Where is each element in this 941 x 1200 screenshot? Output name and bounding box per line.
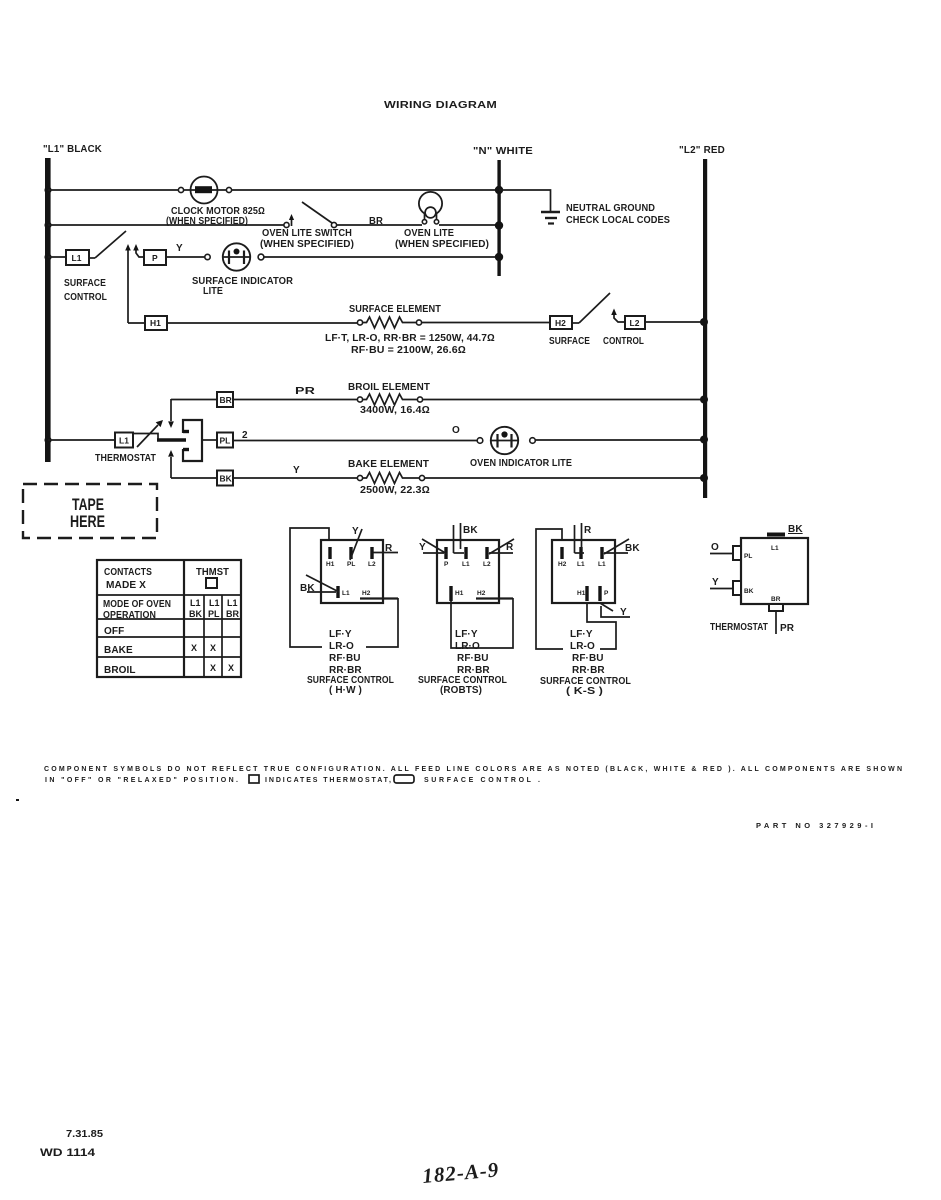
terminal box BK (bake) bbox=[217, 471, 233, 486]
svg-text:LR·O: LR·O bbox=[455, 641, 480, 652]
svg-text:MADE X: MADE X bbox=[106, 580, 146, 591]
label O wire color bbox=[452, 425, 460, 436]
svg-text:PL: PL bbox=[744, 553, 752, 560]
label SURFACE ELEMENT bbox=[349, 304, 441, 315]
label BAKE ELEMENT bbox=[348, 459, 429, 470]
svg-text:H1: H1 bbox=[326, 561, 335, 568]
wire clock motor row left segment bbox=[48, 189, 178, 191]
SC3 element color list bbox=[570, 629, 605, 676]
svg-text:( H·W ): ( H·W ) bbox=[329, 685, 362, 696]
junction N bus / oven lite row bbox=[495, 221, 503, 229]
wire BK box to bake element bbox=[233, 477, 357, 479]
resistor R3 bake element 2500W bbox=[357, 473, 424, 484]
oven selector block bbox=[183, 420, 202, 461]
label date 7.31.85 bbox=[66, 1128, 103, 1140]
svg-text:H1: H1 bbox=[577, 590, 586, 597]
wire selector block to PL box bbox=[202, 439, 217, 441]
svg-text:R: R bbox=[584, 525, 592, 536]
svg-text:THMST: THMST bbox=[196, 567, 229, 578]
svg-text:LR-O: LR-O bbox=[570, 641, 595, 652]
svg-text:L1: L1 bbox=[72, 253, 82, 263]
node L1 bus label "L1" BLACK bbox=[43, 143, 102, 155]
SC1 BK lead with slash to L1 bbox=[300, 575, 339, 594]
wire clock motor row right segment to N bbox=[231, 189, 499, 191]
svg-text:RF·BU: RF·BU bbox=[457, 653, 489, 664]
wire oven lite row right segment to N bbox=[439, 224, 499, 226]
label BROIL ELEMENT bbox=[348, 382, 430, 393]
svg-text:WD 1114: WD 1114 bbox=[40, 1147, 96, 1159]
surface control unit SC1 (H-W) body bbox=[321, 540, 383, 603]
svg-text:SURFACE CONTROL .: SURFACE CONTROL . bbox=[424, 777, 540, 784]
label PART NO 327929-1 bbox=[756, 821, 873, 830]
node L2 bus label "L2" RED bbox=[679, 144, 725, 156]
svg-text:MODE OF OVEN: MODE OF OVEN bbox=[103, 599, 171, 610]
wire bake row left elbow bbox=[171, 477, 217, 479]
lamp DS2 surface indicator lite bbox=[205, 243, 264, 270]
SC1 terminals H1 PL L2 bbox=[326, 547, 376, 568]
svg-text:THERMOSTAT: THERMOSTAT bbox=[710, 622, 768, 633]
label OVEN LITE SWITCH (WHEN SPECIFIED) bbox=[260, 228, 354, 250]
terminal box BR (broil) bbox=[217, 392, 233, 407]
svg-text:H2: H2 bbox=[477, 590, 486, 597]
svg-text:L1: L1 bbox=[598, 561, 606, 568]
wire broil element to L2 bus bbox=[423, 399, 706, 401]
wire H1 row left elbow bbox=[128, 322, 145, 324]
svg-text:LF·T, LR-O, RR·BR = 1250W, 44.: LF·T, LR-O, RR·BR = 1250W, 44.7Ω bbox=[325, 333, 495, 344]
junction L2 bus / bake row bbox=[700, 474, 708, 482]
svg-text:BR: BR bbox=[226, 609, 239, 619]
svg-text:PL: PL bbox=[208, 609, 220, 619]
SC2 caption bbox=[418, 675, 507, 696]
title bbox=[384, 99, 497, 111]
wire broil row left elbow bbox=[171, 399, 217, 401]
switch blade H2 surface control bbox=[572, 293, 610, 323]
junction L1 bus / surface control row bbox=[44, 253, 51, 260]
svg-text:OFF: OFF bbox=[104, 626, 124, 637]
svg-text:LITE: LITE bbox=[203, 286, 223, 297]
SC2 R lead with slash bbox=[489, 539, 514, 554]
switch blade surface control L1 bbox=[89, 231, 126, 258]
wire L1 bus to L1 surface control box bbox=[48, 256, 66, 258]
svg-text:H2: H2 bbox=[362, 590, 371, 597]
svg-text:OVEN LITE: OVEN LITE bbox=[404, 228, 454, 239]
svg-text:OVEN LITE SWITCH: OVEN LITE SWITCH bbox=[262, 228, 352, 239]
svg-text:"N" WHITE: "N" WHITE bbox=[473, 145, 533, 157]
label 2500W 22.3 ohm bbox=[360, 485, 430, 496]
label THERMOSTAT PR bbox=[710, 622, 795, 634]
svg-text:2: 2 bbox=[242, 430, 248, 441]
svg-text:P: P bbox=[604, 590, 609, 597]
svg-text:RF·BU: RF·BU bbox=[329, 653, 361, 664]
label PR wire color bbox=[295, 386, 316, 397]
svg-text:PL: PL bbox=[220, 436, 231, 446]
wire H1 riser with contact arrow bbox=[125, 244, 131, 323]
wire P box to surface indicator lite bbox=[166, 256, 205, 258]
resistor R1 surface element bbox=[357, 317, 421, 328]
wire surface element to H2 bbox=[422, 322, 551, 324]
wire oven lite switch row left segment bbox=[48, 224, 284, 226]
label OVEN INDICATOR LITE bbox=[470, 458, 572, 469]
svg-text:L2: L2 bbox=[483, 561, 491, 568]
terminal box H2 bbox=[550, 316, 572, 329]
junction L2 bus / pilot row bbox=[700, 436, 708, 444]
tape here box bbox=[23, 484, 157, 538]
wire PL box to oven indicator lite bbox=[233, 440, 477, 442]
SC3 terminals H2 L1 L1 bbox=[558, 547, 606, 568]
terminal box H1 bbox=[145, 316, 167, 330]
SC3 lower terminals H1 P bbox=[577, 586, 609, 601]
wire neutral ground stub bbox=[499, 190, 551, 211]
label OVEN LITE (WHEN SPECIFIED) bbox=[395, 228, 489, 250]
svg-text:Y: Y bbox=[419, 542, 426, 553]
svg-text:LF·Y: LF·Y bbox=[570, 629, 593, 640]
svg-text:BK: BK bbox=[220, 474, 233, 484]
SC2 lower terminals H1 H2 bbox=[451, 586, 513, 601]
wire N neutral bus (white) bbox=[497, 160, 500, 276]
svg-text:L1: L1 bbox=[209, 598, 220, 608]
svg-text:Y: Y bbox=[712, 577, 719, 588]
label SURFACE CONTROL (left) bbox=[64, 278, 107, 303]
wire thermostat jog to selector block bbox=[133, 434, 186, 441]
svg-text:X: X bbox=[228, 663, 234, 673]
wire surface indicator row to N bbox=[264, 256, 499, 258]
switch S1 oven lite switch bbox=[284, 202, 337, 228]
thermostat detail box bbox=[741, 538, 808, 604]
label SURFACE INDICATOR LITE bbox=[192, 276, 294, 297]
svg-text:CHECK LOCAL CODES: CHECK LOCAL CODES bbox=[566, 215, 670, 226]
SC3 outer wire loop bbox=[536, 529, 616, 649]
thermostat PL terminal with O lead bbox=[710, 542, 752, 560]
svg-text:O: O bbox=[711, 542, 719, 553]
label terminal 2 bbox=[242, 430, 248, 441]
label Y wire color bbox=[176, 243, 183, 254]
label BR wire color bbox=[369, 216, 384, 227]
svg-text:Y: Y bbox=[293, 465, 300, 476]
SC2 outer wire loop bbox=[451, 598, 513, 648]
svg-text:P: P bbox=[444, 561, 449, 568]
SC1 element color list bbox=[329, 629, 362, 676]
SC3 BK lead with slash bbox=[604, 539, 640, 554]
svg-text:BK: BK bbox=[189, 609, 202, 619]
svg-text:SURFACE ELEMENT: SURFACE ELEMENT bbox=[349, 304, 441, 315]
svg-text:WIRING DIAGRAM: WIRING DIAGRAM bbox=[384, 99, 497, 111]
svg-text:IN "OFF" OR "RELAXED" POSITI: IN "OFF" OR "RELAXED" POSITION. bbox=[45, 777, 238, 784]
wire oven indicator lite to L2 bus bbox=[536, 439, 706, 441]
lamp DS1 oven lite bbox=[419, 192, 442, 224]
SC1 caption bbox=[307, 675, 394, 696]
label SURFACE CONTROL (right) bbox=[549, 336, 644, 347]
wire P box hook with contact arrow bbox=[133, 244, 144, 257]
wire bake contact riser with arrow bbox=[168, 450, 174, 478]
terminal box PL (pilot) bbox=[217, 433, 233, 448]
label Y wire color (bake) bbox=[293, 465, 300, 476]
junction L1 bus / thermostat row bbox=[44, 436, 51, 443]
svg-text:BAKE ELEMENT: BAKE ELEMENT bbox=[348, 459, 429, 470]
svg-text:BK: BK bbox=[463, 525, 478, 536]
svg-text:HERE: HERE bbox=[70, 512, 105, 531]
svg-text:H2: H2 bbox=[558, 561, 567, 568]
wire L2 feed bus (red) bbox=[703, 159, 707, 498]
svg-text:L2: L2 bbox=[630, 318, 640, 328]
label CLOCK MOTOR 825 ohm bbox=[166, 206, 265, 227]
SC3 caption bbox=[540, 676, 631, 697]
svg-text:CONTACTS: CONTACTS bbox=[104, 567, 152, 578]
junction N bus / clock row bbox=[495, 186, 503, 194]
thermostat BK terminal with Y lead bbox=[710, 577, 754, 595]
svg-text:NEUTRAL GROUND: NEUTRAL GROUND bbox=[566, 203, 655, 214]
svg-text:L1: L1 bbox=[119, 436, 129, 446]
svg-text:H1: H1 bbox=[150, 318, 161, 328]
clock motor M1 terminals bbox=[178, 187, 231, 192]
svg-text:L1: L1 bbox=[190, 598, 201, 608]
wire bake element to L2 bus bbox=[425, 477, 706, 479]
junction L2 bus / broil row bbox=[700, 396, 708, 404]
label THERMOSTAT bbox=[95, 453, 156, 464]
node N bus label "N" WHITE bbox=[473, 145, 533, 157]
svg-text:SURFACE: SURFACE bbox=[549, 336, 590, 347]
lamp DS3 oven indicator lite bbox=[477, 427, 535, 454]
label surface element ratings bbox=[325, 333, 495, 356]
svg-text:RR·BR: RR·BR bbox=[572, 665, 605, 676]
svg-text:3400W, 16.4Ω: 3400W, 16.4Ω bbox=[360, 405, 430, 416]
junction L1 bus / clock row bbox=[44, 186, 51, 193]
clock motor M1 825 ohm bbox=[184, 177, 227, 204]
svg-text:(WHEN SPECIFIED): (WHEN SPECIFIED) bbox=[260, 239, 354, 250]
svg-text:LR-O: LR-O bbox=[329, 641, 354, 652]
SC1 Y lead with switch slash bbox=[350, 526, 362, 560]
svg-text:L1: L1 bbox=[577, 561, 585, 568]
handwritten 182-A-9 bbox=[421, 1157, 500, 1188]
svg-text:7.31.85: 7.31.85 bbox=[66, 1128, 103, 1140]
svg-text:BROIL: BROIL bbox=[104, 665, 136, 676]
svg-text:( K-S ): ( K-S ) bbox=[566, 686, 603, 697]
resistor R2 broil element 3400W bbox=[357, 394, 422, 405]
svg-text:BK: BK bbox=[744, 588, 754, 595]
svg-text:BK: BK bbox=[788, 524, 803, 535]
label WD 1114 bbox=[40, 1147, 96, 1159]
SC1 lower terminals L1 H2 bbox=[338, 586, 398, 599]
svg-text:L1: L1 bbox=[462, 561, 470, 568]
svg-text:P: P bbox=[152, 253, 158, 263]
wire L2 box to L2 bus bbox=[645, 321, 705, 323]
svg-text:PL: PL bbox=[347, 561, 355, 568]
wire broil contact riser with arrow bbox=[168, 399, 174, 428]
wire L1 bus to thermostat L1 box bbox=[48, 439, 115, 441]
svg-text:SURFACE: SURFACE bbox=[64, 278, 106, 289]
svg-text:BROIL ELEMENT: BROIL ELEMENT bbox=[348, 382, 430, 393]
thermostat BR terminal with PR lead bbox=[769, 596, 783, 634]
svg-text:L1: L1 bbox=[342, 590, 350, 597]
svg-text:"L2" RED: "L2" RED bbox=[679, 144, 725, 156]
junction N bus / indicator row bbox=[495, 253, 503, 261]
SC2 Y lead with slash bbox=[419, 539, 447, 554]
svg-text:L1: L1 bbox=[771, 545, 779, 552]
terminal box L1 (surface control) bbox=[66, 250, 89, 265]
wire H1 to surface element bbox=[167, 322, 357, 324]
note line 1 bbox=[44, 766, 902, 773]
stray mark bbox=[16, 799, 19, 801]
terminal box L1 (thermostat) bbox=[115, 433, 133, 448]
contacts table bbox=[97, 560, 241, 677]
svg-text:CONTROL: CONTROL bbox=[64, 292, 107, 303]
svg-text:X: X bbox=[191, 643, 197, 653]
svg-text:THERMOSTAT: THERMOSTAT bbox=[95, 453, 156, 464]
svg-text:X: X bbox=[210, 643, 216, 653]
SC1 R lead bbox=[374, 543, 399, 554]
SC2 terminals P L1 L2 bbox=[444, 547, 491, 568]
svg-text:PR: PR bbox=[780, 623, 795, 634]
wire L1 feed bus (black) bbox=[45, 158, 51, 462]
SC3 R lead pair bbox=[575, 523, 593, 553]
svg-text:(ROBTS): (ROBTS) bbox=[440, 685, 482, 696]
junction L2 bus / surface element row bbox=[700, 318, 708, 326]
svg-text:Y: Y bbox=[620, 607, 627, 618]
SC2 BK lead pair bbox=[454, 523, 479, 553]
wire oven lite switch row middle segment bbox=[337, 224, 423, 226]
svg-text:Y: Y bbox=[352, 526, 359, 537]
SC3 Y lead from P bbox=[600, 603, 630, 618]
label 3400W 16.4 ohm bbox=[360, 405, 430, 416]
thermostat BK terminal (top) bbox=[767, 524, 803, 535]
svg-text:RF·BU = 2100W, 26.6Ω: RF·BU = 2100W, 26.6Ω bbox=[351, 345, 466, 356]
note line 2 bbox=[45, 775, 540, 784]
thermostat L1 label bbox=[771, 545, 779, 552]
svg-text:"L1" BLACK: "L1" BLACK bbox=[43, 143, 102, 155]
svg-text:BAKE: BAKE bbox=[104, 645, 133, 656]
svg-text:RF·BU: RF·BU bbox=[572, 653, 604, 664]
svg-text:L2: L2 bbox=[368, 561, 376, 568]
surface control unit SC3 (K-S) body bbox=[552, 540, 615, 603]
wire L2 box hook with contact arrow bbox=[611, 309, 625, 323]
SC2 element color list bbox=[455, 629, 490, 676]
svg-text:L1: L1 bbox=[227, 598, 238, 608]
svg-text:O: O bbox=[452, 425, 460, 436]
SC1 outer wire loop bbox=[290, 528, 398, 647]
svg-text:CONTROL: CONTROL bbox=[603, 336, 644, 347]
svg-text:X: X bbox=[210, 663, 216, 673]
svg-text:Y: Y bbox=[176, 243, 183, 254]
thermostat adjust arrow bbox=[137, 420, 163, 447]
label NEUTRAL GROUND CHECK LOCAL CODES bbox=[566, 203, 670, 226]
svg-text:LF·Y: LF·Y bbox=[455, 629, 478, 640]
svg-text:(WHEN SPECIFIED): (WHEN SPECIFIED) bbox=[395, 239, 489, 250]
terminal box P (surface indicator) bbox=[144, 250, 166, 265]
ground symbol GND1 bbox=[541, 212, 560, 224]
svg-text:LF·Y: LF·Y bbox=[329, 629, 352, 640]
terminal box L2 (surface control) bbox=[625, 316, 645, 329]
surface control unit SC2 (ROBTS) body bbox=[437, 540, 499, 603]
svg-text:OVEN INDICATOR LITE: OVEN INDICATOR LITE bbox=[470, 458, 572, 469]
svg-text:H2: H2 bbox=[555, 318, 566, 328]
svg-text:BR: BR bbox=[771, 596, 781, 603]
wire BR box to broil element bbox=[233, 399, 357, 401]
svg-text:OPERATION: OPERATION bbox=[103, 610, 156, 621]
svg-text:PR: PR bbox=[295, 386, 316, 397]
svg-text:BR: BR bbox=[220, 395, 232, 405]
svg-text:H1: H1 bbox=[455, 590, 464, 597]
junction L1 bus / oven lite switch row bbox=[44, 221, 51, 228]
svg-text:2500W, 22.3Ω: 2500W, 22.3Ω bbox=[360, 485, 430, 496]
